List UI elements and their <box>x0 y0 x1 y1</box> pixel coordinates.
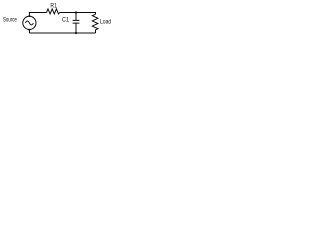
AC source sine wave <box>25 21 33 25</box>
wire: source bottom stub <box>28 30 30 34</box>
capacitor C1 bottom plate <box>73 22 80 24</box>
resistor R1 zigzag <box>47 9 60 14</box>
junction dot at capacitor top <box>75 11 77 13</box>
capacitor C1 top lead <box>75 13 77 21</box>
terminal dot at source bottom <box>28 29 30 31</box>
junction dot at capacitor bottom <box>75 32 77 34</box>
terminal dot at source top <box>28 15 30 17</box>
svg-text:Load: Load <box>100 19 111 26</box>
wire: bottom rail <box>29 32 95 34</box>
capacitor C1 top plate <box>73 19 80 21</box>
capacitor C1 bottom lead <box>75 23 77 33</box>
AC source V1 circle <box>23 16 36 29</box>
load resistor zigzag <box>92 14 98 29</box>
wire: load bottom to bottom rail <box>95 30 97 33</box>
background <box>0 0 120 44</box>
wire: source top stub and top wire to resistor <box>29 13 46 17</box>
svg-text:Source: Source <box>3 17 17 24</box>
svg-text:C1: C1 <box>62 16 69 23</box>
svg-text:R1: R1 <box>50 3 57 10</box>
wire: resistor to load top <box>60 13 96 15</box>
